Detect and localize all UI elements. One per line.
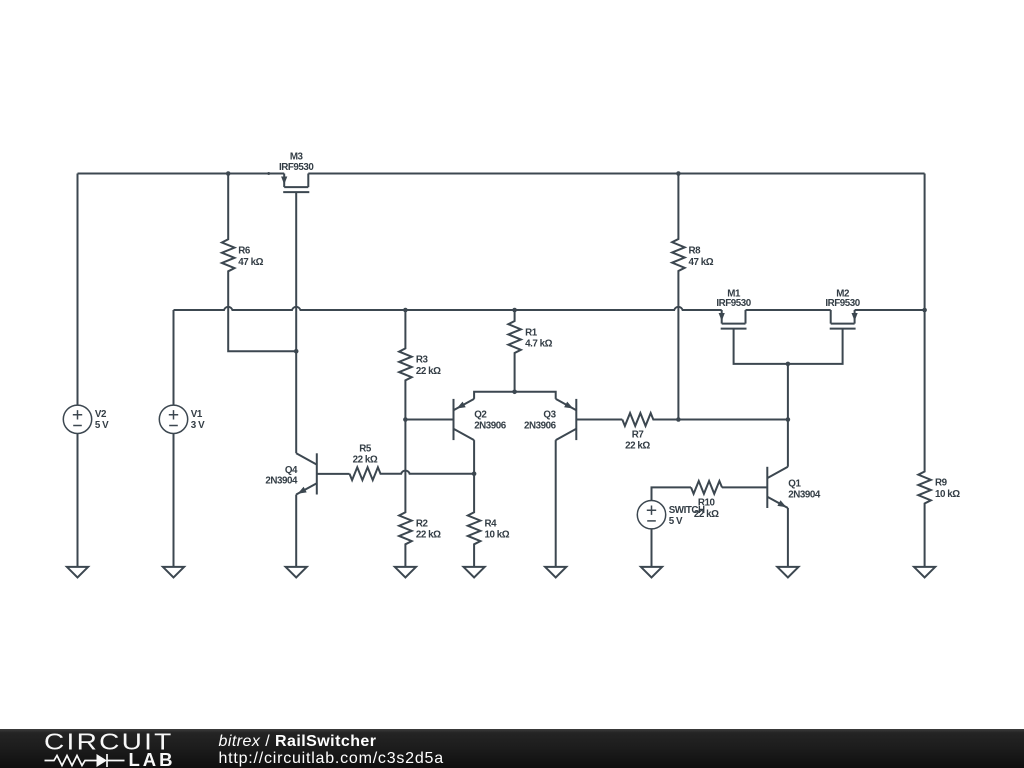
svg-text:SWITCH: SWITCH bbox=[669, 505, 705, 516]
svg-text:Q1: Q1 bbox=[788, 478, 801, 489]
svg-text:47 kΩ: 47 kΩ bbox=[238, 257, 263, 268]
svg-text:5 V: 5 V bbox=[95, 420, 109, 431]
svg-text:M3: M3 bbox=[290, 151, 304, 162]
svg-text:IRF9530: IRF9530 bbox=[716, 298, 751, 309]
svg-text:R8: R8 bbox=[689, 246, 702, 257]
svg-text:Q3: Q3 bbox=[543, 410, 556, 421]
svg-text:22 kΩ: 22 kΩ bbox=[353, 455, 378, 466]
svg-text:IRF9530: IRF9530 bbox=[825, 298, 860, 309]
svg-text:2N3904: 2N3904 bbox=[265, 476, 298, 487]
svg-text:R2: R2 bbox=[416, 518, 429, 529]
svg-text:R1: R1 bbox=[525, 327, 538, 338]
svg-text:47 kΩ: 47 kΩ bbox=[689, 257, 714, 268]
svg-text:R9: R9 bbox=[935, 478, 948, 489]
svg-text:22 kΩ: 22 kΩ bbox=[416, 366, 441, 377]
svg-text:R6: R6 bbox=[238, 246, 251, 257]
svg-text:4.7 kΩ: 4.7 kΩ bbox=[525, 339, 553, 350]
svg-text:5 V: 5 V bbox=[669, 516, 683, 527]
svg-text:2N3906: 2N3906 bbox=[524, 420, 557, 431]
svg-text:3 V: 3 V bbox=[191, 420, 205, 431]
svg-text:R3: R3 bbox=[416, 355, 429, 366]
svg-text:10 kΩ: 10 kΩ bbox=[935, 489, 960, 500]
svg-text:10 kΩ: 10 kΩ bbox=[485, 530, 510, 541]
svg-text:LAB: LAB bbox=[129, 749, 176, 768]
svg-text:2N3906: 2N3906 bbox=[474, 420, 507, 431]
svg-text:22 kΩ: 22 kΩ bbox=[416, 530, 441, 541]
svg-text:Q4: Q4 bbox=[285, 465, 298, 476]
svg-text:V2: V2 bbox=[95, 409, 107, 420]
svg-text:2N3904: 2N3904 bbox=[788, 489, 821, 500]
svg-text:R5: R5 bbox=[359, 444, 372, 455]
svg-text:Q2: Q2 bbox=[474, 410, 487, 421]
svg-text:22 kΩ: 22 kΩ bbox=[625, 441, 650, 452]
svg-text:R4: R4 bbox=[485, 518, 498, 529]
svg-text:V1: V1 bbox=[191, 409, 203, 420]
svg-text:R7: R7 bbox=[632, 430, 645, 441]
svg-text:IRF9530: IRF9530 bbox=[279, 162, 314, 173]
